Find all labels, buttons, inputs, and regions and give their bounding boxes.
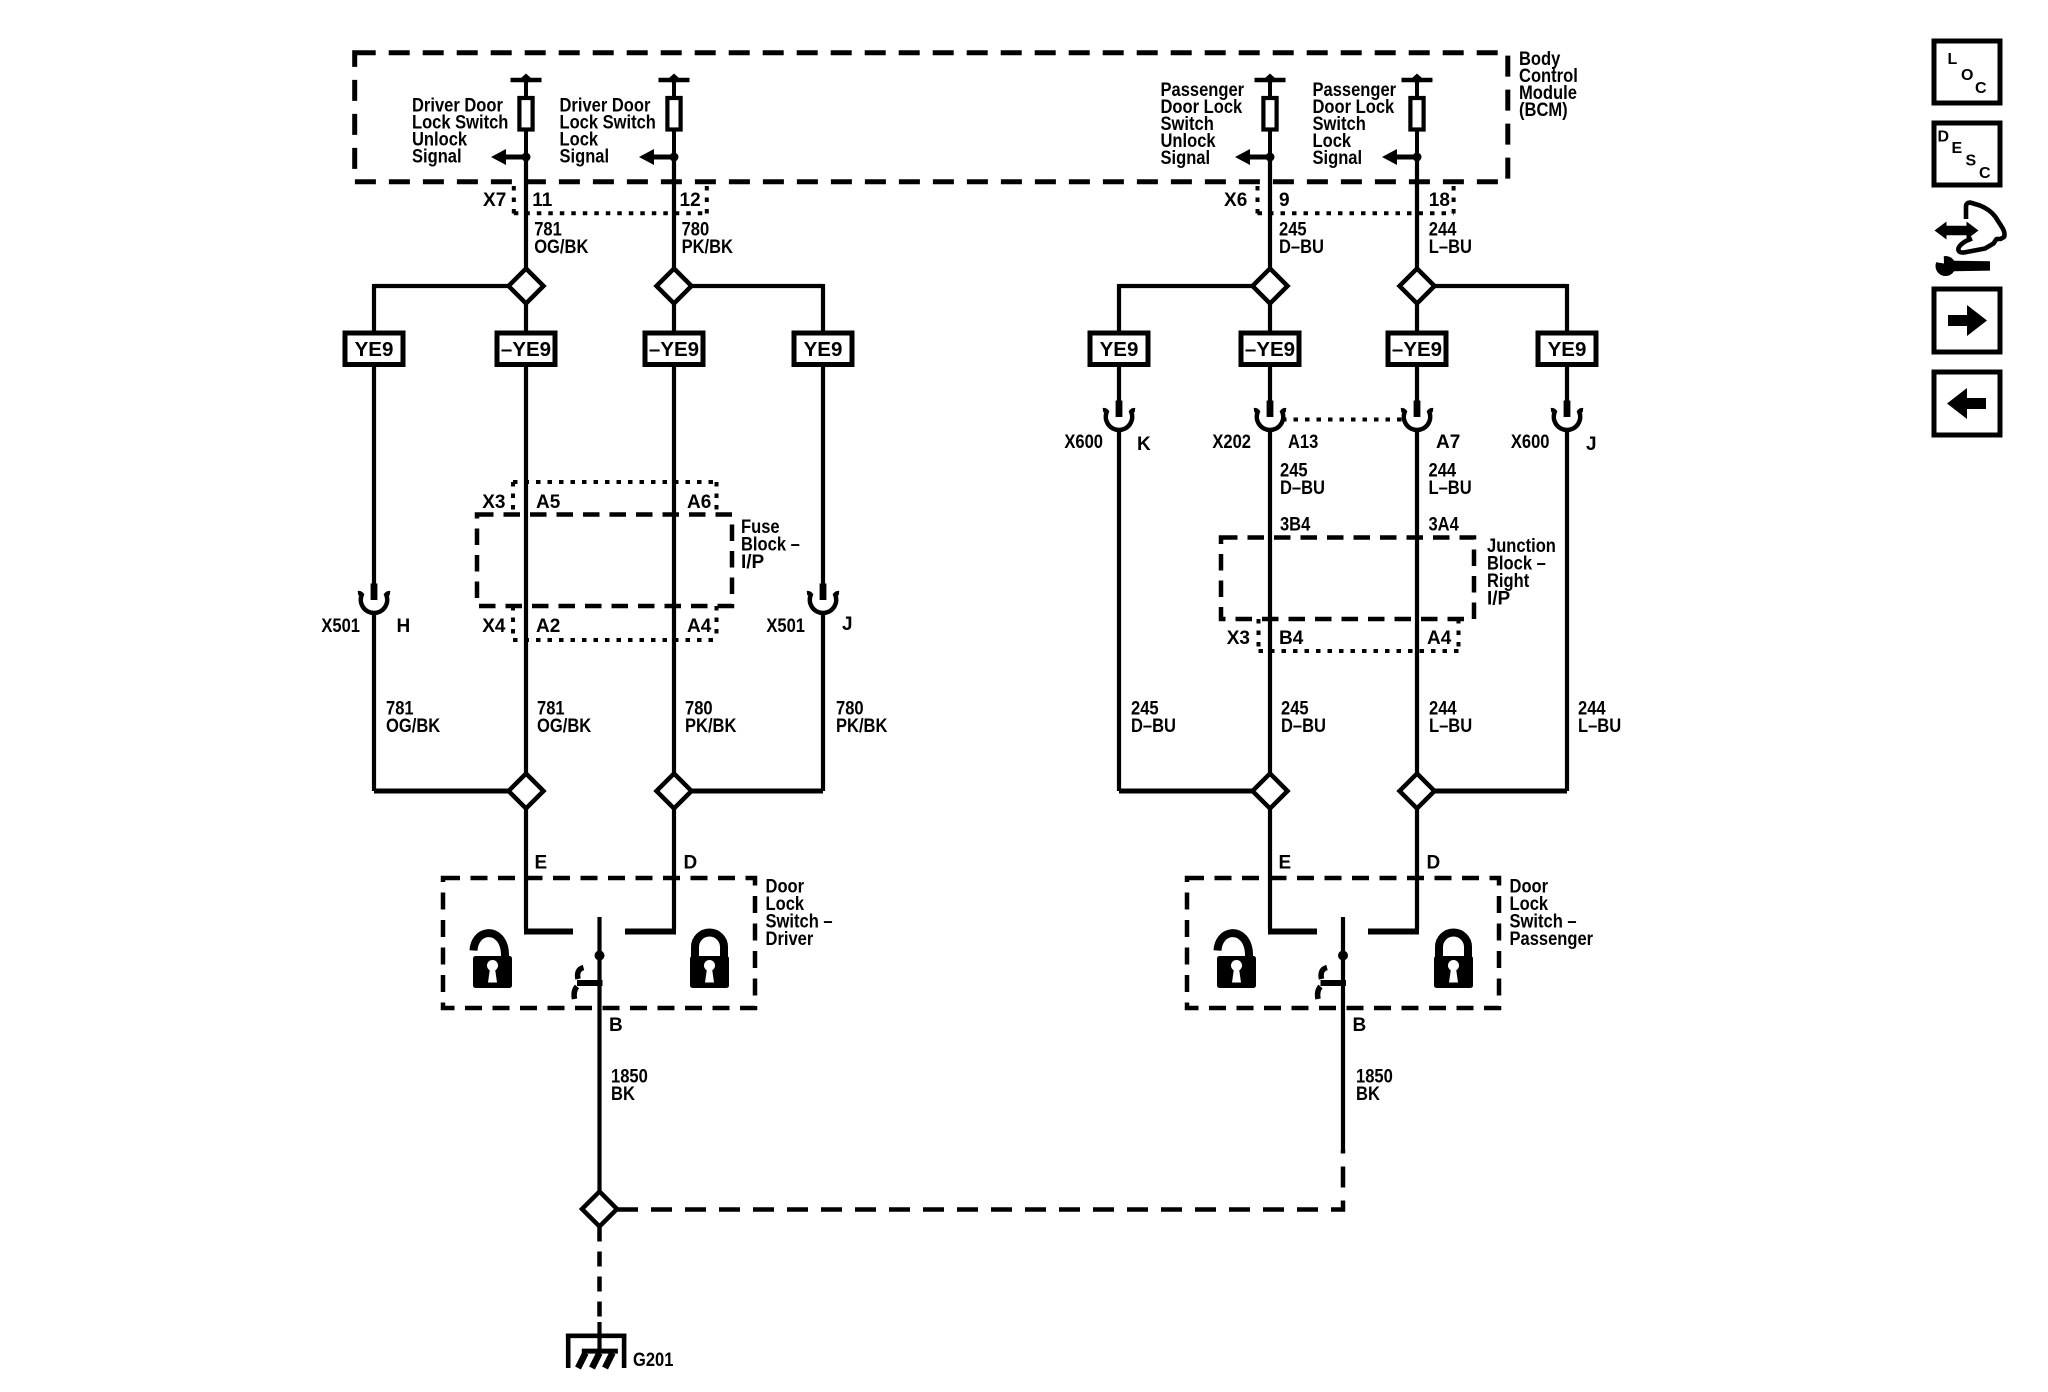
svg-text:Signal: Signal — [412, 147, 462, 168]
svg-text:X7: X7 — [483, 190, 506, 211]
svg-text:3A4: 3A4 — [1429, 515, 1460, 536]
svg-text:I/P: I/P — [1487, 589, 1511, 610]
svg-text:X501: X501 — [321, 616, 360, 637]
svg-text:OG/BK: OG/BK — [534, 237, 588, 258]
svg-text:X3: X3 — [482, 492, 505, 513]
svg-text:L–BU: L–BU — [1578, 716, 1621, 737]
svg-text:18: 18 — [1429, 190, 1450, 211]
svg-text:A6: A6 — [687, 492, 711, 513]
svg-text:11: 11 — [532, 190, 553, 211]
svg-text:L–BU: L–BU — [1429, 478, 1472, 499]
svg-text:A4: A4 — [687, 616, 712, 637]
svg-text:L: L — [1948, 51, 1958, 68]
svg-text:B: B — [609, 1015, 623, 1036]
svg-text:12: 12 — [680, 190, 701, 211]
svg-text:K: K — [1137, 434, 1151, 455]
svg-text:Driver: Driver — [766, 929, 814, 950]
svg-text:PK/BK: PK/BK — [836, 716, 888, 737]
svg-text:S: S — [1966, 153, 1977, 170]
svg-text:G201: G201 — [633, 1350, 674, 1371]
svg-text:OG/BK: OG/BK — [537, 716, 591, 737]
svg-text:OG/BK: OG/BK — [386, 716, 440, 737]
svg-text:C: C — [1975, 80, 1987, 97]
svg-text:D: D — [1427, 853, 1441, 874]
svg-text:BK: BK — [611, 1084, 635, 1105]
svg-text:B: B — [1353, 1015, 1367, 1036]
svg-text:I/P: I/P — [741, 552, 765, 573]
svg-text:L–BU: L–BU — [1429, 716, 1472, 737]
svg-text:X4: X4 — [482, 616, 506, 637]
svg-text:E: E — [535, 853, 548, 874]
svg-text:B4: B4 — [1279, 628, 1304, 649]
svg-text:A7: A7 — [1436, 432, 1460, 453]
svg-text:X501: X501 — [766, 616, 805, 637]
svg-text:X202: X202 — [1212, 432, 1251, 453]
svg-text:3B4: 3B4 — [1280, 515, 1311, 536]
svg-text:X3: X3 — [1227, 628, 1250, 649]
svg-text:9: 9 — [1279, 190, 1290, 211]
svg-text:(BCM): (BCM) — [1519, 100, 1568, 121]
svg-text:X6: X6 — [1224, 190, 1247, 211]
svg-text:D–BU: D–BU — [1131, 716, 1176, 737]
svg-text:H: H — [397, 616, 411, 637]
svg-text:A13: A13 — [1288, 432, 1318, 453]
svg-text:BK: BK — [1356, 1084, 1380, 1105]
svg-text:D–BU: D–BU — [1280, 478, 1325, 499]
svg-text:Signal: Signal — [1313, 148, 1363, 169]
svg-text:O: O — [1961, 67, 1973, 84]
svg-text:Passenger: Passenger — [1510, 929, 1594, 950]
svg-text:E: E — [1952, 140, 1963, 157]
svg-text:X600: X600 — [1064, 432, 1103, 453]
svg-text:D–BU: D–BU — [1279, 237, 1324, 258]
svg-text:L–BU: L–BU — [1429, 237, 1472, 258]
svg-text:C: C — [1979, 165, 1991, 182]
svg-text:E: E — [1279, 853, 1292, 874]
svg-text:Signal: Signal — [1161, 148, 1211, 169]
svg-text:A5: A5 — [536, 492, 561, 513]
svg-text:Signal: Signal — [560, 147, 610, 168]
svg-text:D–BU: D–BU — [1281, 716, 1326, 737]
svg-text:D: D — [1938, 129, 1950, 146]
svg-text:A2: A2 — [536, 616, 560, 637]
svg-text:J: J — [1586, 434, 1597, 455]
svg-text:A4: A4 — [1427, 628, 1452, 649]
svg-text:PK/BK: PK/BK — [685, 716, 737, 737]
svg-text:D: D — [684, 853, 698, 874]
svg-text:PK/BK: PK/BK — [682, 237, 734, 258]
svg-text:X600: X600 — [1511, 432, 1550, 453]
svg-text:J: J — [842, 614, 853, 635]
